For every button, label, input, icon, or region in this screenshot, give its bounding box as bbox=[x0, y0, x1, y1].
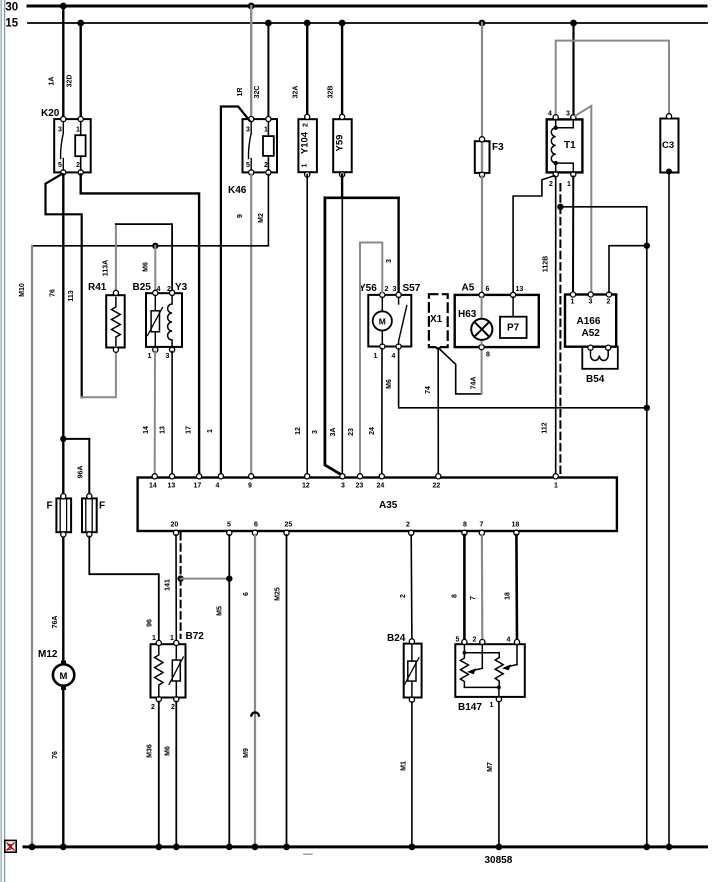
fuse F3 box bbox=[475, 141, 490, 173]
T1 internal node bottom bbox=[554, 161, 558, 165]
svg-text:B24: B24 bbox=[387, 633, 406, 644]
Y59 top pin circle bbox=[340, 114, 345, 119]
svg-text:5: 5 bbox=[227, 522, 231, 529]
wire 76 K20 pin5 down bbox=[62, 175, 64, 439]
wire F3 to A5 pin6 bbox=[481, 177, 483, 293]
svg-text:12: 12 bbox=[302, 483, 310, 490]
svg-text:18: 18 bbox=[512, 522, 520, 529]
svg-text:76: 76 bbox=[52, 751, 59, 759]
K20 coil leads bbox=[80, 122, 82, 171]
B24 top pin circle bbox=[409, 639, 414, 644]
wire 96A branch to right fuse bbox=[63, 439, 89, 494]
wire 112 T1 pin2 to A35 pin1 bbox=[555, 177, 557, 475]
svg-text:1: 1 bbox=[76, 127, 80, 134]
svg-text:5: 5 bbox=[246, 162, 250, 169]
wire 32D bus15 to K20 pin1 bbox=[79, 23, 81, 119]
wire 74A H63 pin8 drop bbox=[481, 350, 483, 394]
svg-text:2: 2 bbox=[76, 162, 80, 169]
ignition coil T1 box bbox=[547, 119, 583, 172]
shield dashed line 112 bbox=[559, 184, 561, 474]
ground bus junction dots bbox=[29, 844, 673, 851]
T1 internal lead to pin2 bbox=[555, 163, 557, 172]
svg-text:F: F bbox=[47, 501, 53, 512]
node bus15/F3 junction bbox=[479, 20, 486, 27]
Y56 pin 2 circle bbox=[380, 292, 385, 297]
F3 bottom pin circle bbox=[479, 172, 484, 177]
wire 96 right fuse to B72 pin1 bbox=[89, 537, 159, 641]
K46 coil leads bbox=[267, 122, 269, 171]
svg-text:13: 13 bbox=[168, 483, 176, 490]
T1 coil winding bbox=[551, 128, 555, 163]
svg-text:1: 1 bbox=[571, 299, 575, 306]
K20 pin 5 circle bbox=[61, 170, 66, 175]
wire 74A elbow X1 to H63 drop bbox=[440, 350, 482, 394]
B72 pin numbers 2 2 bbox=[151, 704, 175, 711]
svg-text:3: 3 bbox=[341, 483, 345, 490]
T1 internal link bottom to pin1 bbox=[556, 163, 574, 172]
ground symbol icon bottom left bbox=[5, 840, 16, 852]
A5 pin 6 circle bbox=[479, 292, 484, 297]
svg-text:1: 1 bbox=[264, 127, 268, 134]
svg-text:3: 3 bbox=[246, 127, 250, 134]
wire 23 A35 pin23 up over to Y56 pin2 bbox=[360, 243, 382, 475]
wire 76A junction to M12 bbox=[62, 439, 64, 662]
svg-text:M: M bbox=[379, 317, 386, 327]
svg-text:M10: M10 bbox=[19, 283, 26, 297]
svg-text:4: 4 bbox=[392, 353, 396, 360]
wire M6 junction to B25 pin4 bbox=[154, 246, 156, 291]
svg-text:17: 17 bbox=[186, 426, 193, 434]
node bus30/1A junction bbox=[60, 3, 67, 10]
svg-text:2: 2 bbox=[549, 181, 553, 188]
shield dashed line 141 bbox=[180, 533, 182, 638]
gauge P7 box bbox=[500, 317, 527, 338]
A166 pin 1 circle bbox=[570, 292, 575, 297]
svg-text:A5: A5 bbox=[462, 282, 475, 293]
svg-text:112: 112 bbox=[542, 422, 549, 433]
B147 left potentiometer zigzag bbox=[460, 653, 468, 688]
wire 8 A35 pin8 to B147 pin5 bbox=[463, 535, 466, 640]
svg-text:2: 2 bbox=[264, 162, 268, 169]
B147 pin 2 circle bbox=[480, 639, 485, 644]
svg-text:3A: 3A bbox=[330, 428, 337, 437]
wire T1 pin2 to P7 via A5 pin13 bbox=[513, 176, 554, 293]
T1 internal primary top link pin3 to coil bbox=[556, 120, 574, 128]
svg-text:1: 1 bbox=[567, 181, 571, 188]
wire M25 A35 pin25 to ground bbox=[286, 535, 288, 847]
B147 pin 4 circle bbox=[514, 639, 519, 644]
svg-text:17: 17 bbox=[194, 483, 202, 490]
ground bus 31 line bbox=[24, 845, 707, 848]
K46 relay coil resistor bbox=[263, 136, 274, 156]
svg-text:30858: 30858 bbox=[485, 855, 513, 866]
wire M6 S57 pin4 to ground riser bbox=[399, 349, 647, 408]
svg-text:8: 8 bbox=[463, 522, 467, 529]
svg-text:F: F bbox=[99, 501, 105, 512]
wire horizontal M2/M10 run crossing label M6 junction bbox=[152, 243, 158, 249]
wire 32C bus15 to K46 pin1 bbox=[267, 23, 269, 119]
wire C3 to ground bbox=[668, 172, 670, 847]
wire M1 B24 to ground bbox=[411, 702, 413, 847]
svg-text:2: 2 bbox=[406, 522, 410, 529]
wire 18 A35 pin18 to B147 pin4 bbox=[515, 535, 518, 640]
R41 zigzag element bbox=[112, 298, 121, 346]
T1 pin 2 circle bbox=[553, 172, 558, 177]
svg-text:1R: 1R bbox=[237, 88, 244, 97]
M12 motor symbol bbox=[53, 661, 74, 690]
fuse F right box bbox=[82, 498, 97, 532]
svg-text:T1: T1 bbox=[564, 140, 576, 151]
svg-text:30: 30 bbox=[5, 2, 18, 14]
node M6/ground riser junction bbox=[644, 405, 650, 411]
svg-text:13: 13 bbox=[516, 286, 524, 293]
svg-text:M25: M25 bbox=[275, 587, 282, 601]
svg-text:2: 2 bbox=[303, 123, 310, 127]
svg-text:M12: M12 bbox=[38, 649, 58, 660]
svg-text:M7: M7 bbox=[487, 762, 494, 772]
H63 lamp symbol bbox=[471, 319, 492, 340]
svg-text:3: 3 bbox=[566, 111, 570, 118]
svg-text:A35: A35 bbox=[379, 500, 398, 511]
svg-text:4: 4 bbox=[216, 483, 220, 490]
svg-text:1: 1 bbox=[374, 353, 378, 360]
stray gray dash mark bbox=[304, 853, 312, 855]
sensor B54 box bbox=[582, 347, 618, 369]
svg-text:6: 6 bbox=[254, 522, 258, 529]
svg-text:B25: B25 bbox=[133, 282, 152, 293]
wire 1A bus30 to K20 pin3 bbox=[62, 6, 64, 119]
svg-text:9: 9 bbox=[248, 483, 252, 490]
svg-text:32B: 32B bbox=[328, 86, 335, 99]
svg-text:M1: M1 bbox=[401, 761, 408, 771]
svg-text:32D: 32D bbox=[67, 75, 74, 88]
Y3 pin 3 circle bbox=[170, 347, 175, 352]
fuse F left pin circles bbox=[61, 494, 66, 537]
svg-text:Y59: Y59 bbox=[335, 135, 346, 152]
wire 1R bus30 to K46 pin3 bbox=[250, 6, 252, 119]
svg-text:1: 1 bbox=[152, 635, 156, 642]
R41 top pin circle bbox=[113, 290, 118, 295]
C3 top pin circle bbox=[666, 114, 671, 119]
K20 pin 3 circle bbox=[61, 117, 66, 122]
wire 113 lower elbow to R41 bbox=[82, 352, 116, 398]
svg-text:13: 13 bbox=[160, 426, 167, 434]
svg-text:M6: M6 bbox=[386, 379, 393, 389]
svg-text:14: 14 bbox=[149, 483, 157, 490]
page left border double line bbox=[1, 0, 4, 882]
F3 element wire through bbox=[481, 141, 483, 173]
svg-text:F3: F3 bbox=[492, 142, 504, 153]
svg-text:A52: A52 bbox=[582, 328, 601, 339]
svg-text:M6: M6 bbox=[165, 746, 172, 756]
A35 bottom pin circles bbox=[173, 530, 519, 535]
fuse F right pin circles bbox=[87, 494, 92, 537]
svg-text:B147: B147 bbox=[458, 702, 482, 713]
svg-text:96A: 96A bbox=[78, 466, 85, 479]
svg-text:1: 1 bbox=[554, 483, 558, 490]
svg-text:3: 3 bbox=[393, 286, 397, 293]
wire T1 pin4 up over to C3 top bbox=[556, 41, 669, 117]
B147 pin 1 circle bbox=[496, 697, 501, 702]
svg-text:H63: H63 bbox=[458, 309, 477, 320]
A5 pin 13 circle bbox=[510, 292, 515, 297]
svg-text:6: 6 bbox=[486, 286, 490, 293]
H63 lamp leads bbox=[481, 297, 483, 345]
svg-text:R41: R41 bbox=[88, 282, 107, 293]
svg-text:23: 23 bbox=[348, 428, 355, 436]
svg-text:C3: C3 bbox=[662, 140, 674, 151]
sensor B72 box bbox=[151, 644, 186, 697]
B72 zigzag element bbox=[155, 646, 163, 698]
wire T1 pin3 diagonal to A166 pin3 riser bbox=[575, 106, 591, 293]
X1 bottom pin circle bbox=[435, 347, 441, 350]
B147 internal node bottom bbox=[497, 686, 501, 690]
wire 6 A35 pin6 down bbox=[254, 535, 256, 847]
wire bridge R41 top to Y3 pin2 bbox=[116, 224, 172, 293]
wire 1 K46 pin3 branch to A35 pin4 bbox=[221, 107, 250, 475]
svg-text:76A: 76A bbox=[52, 616, 59, 629]
wire bus15 to F3 top bbox=[481, 23, 483, 139]
wire 32A bus15 to Y104 pin2 bbox=[306, 23, 308, 116]
svg-text:9: 9 bbox=[237, 214, 244, 218]
K20 pin 2 circle bbox=[78, 170, 83, 175]
svg-text:Y104: Y104 bbox=[300, 131, 311, 154]
wire A166 pin2 up over to ground riser bbox=[609, 246, 647, 293]
connector hook on wire 6 bbox=[251, 712, 259, 715]
svg-text:22: 22 bbox=[433, 483, 441, 490]
svg-text:3: 3 bbox=[386, 259, 393, 263]
A35 top pin numbers bbox=[149, 483, 558, 490]
svg-text:X1: X1 bbox=[430, 314, 443, 325]
B24 bottom pin circle bbox=[409, 697, 414, 702]
svg-text:12: 12 bbox=[295, 427, 302, 435]
svg-text:M9: M9 bbox=[243, 748, 250, 758]
wire 12 Y104 pin1 to A35 pin12 bbox=[306, 175, 308, 475]
B147 internal node top bbox=[463, 651, 467, 655]
wire 9 K46 pin5 to A35 pin9 bbox=[250, 175, 252, 475]
wire 113 K20 pin5 jog down to R41 bottom bbox=[46, 174, 82, 397]
node bus30/1R junction bbox=[248, 3, 255, 10]
node A166 pin2/ground riser junction bbox=[644, 243, 650, 249]
wire 3 bridge Y59 pin1 node bbox=[325, 175, 399, 198]
B72 pin 2 right circle bbox=[174, 697, 179, 702]
svg-text:76: 76 bbox=[50, 289, 57, 297]
Y56 motor symbol bbox=[373, 297, 392, 344]
S57 pin 3 circle bbox=[396, 292, 401, 297]
instrument cluster A5 box bbox=[455, 295, 539, 347]
K46 pin 5 circle bbox=[249, 170, 254, 175]
control unit A166 box bbox=[565, 295, 616, 347]
node bus15/32C junction bbox=[265, 20, 272, 27]
svg-text:32A: 32A bbox=[293, 86, 300, 99]
A35 bottom pin numbers bbox=[171, 522, 520, 529]
svg-text:1: 1 bbox=[302, 163, 309, 167]
svg-text:P7: P7 bbox=[507, 323, 520, 334]
svg-text:Y56: Y56 bbox=[359, 283, 377, 294]
svg-text:4: 4 bbox=[507, 637, 511, 644]
Y104 pin 1 circle bbox=[305, 172, 310, 177]
K46 pin 3 circle bbox=[249, 117, 254, 122]
A166 pin 2 circle bbox=[606, 292, 611, 297]
node bus15/32A junction bbox=[304, 20, 311, 27]
K46 switch contact bbox=[248, 122, 251, 171]
wire 3A Y59 to A35 pin3 bbox=[341, 198, 343, 475]
svg-text:96: 96 bbox=[147, 619, 154, 627]
svg-text:M36: M36 bbox=[147, 744, 154, 758]
svg-text:2: 2 bbox=[400, 594, 407, 598]
node shield 141 drain junction bbox=[177, 575, 183, 581]
svg-text:M2: M2 bbox=[258, 213, 265, 223]
B147 right potentiometer zigzag bbox=[495, 658, 503, 688]
svg-text:2: 2 bbox=[473, 637, 477, 644]
svg-text:1A: 1A bbox=[49, 77, 56, 86]
T1 pin 4 circle bbox=[553, 115, 558, 120]
svg-text:2: 2 bbox=[385, 286, 389, 293]
svg-text:4: 4 bbox=[548, 111, 552, 118]
B54 inductive element bbox=[591, 350, 609, 361]
connector X1 dashed box bbox=[429, 294, 448, 347]
B25/Y3 combined box bbox=[146, 293, 182, 347]
wire 3 thick branch down to A35 pin3 bbox=[325, 198, 343, 476]
svg-text:112B: 112B bbox=[543, 256, 550, 272]
Y104 pin 2 circle bbox=[305, 114, 310, 119]
control unit A35 box bbox=[138, 478, 617, 532]
node 96A branch junction bbox=[60, 436, 66, 442]
wire shield drain to ground riser bbox=[560, 207, 646, 847]
relay K46 box bbox=[243, 119, 278, 172]
svg-text:5: 5 bbox=[58, 162, 62, 169]
B147 internal top link bbox=[464, 645, 499, 658]
B54 pin circles bbox=[588, 345, 611, 350]
B72 pin 1 right circle bbox=[174, 640, 179, 645]
svg-text:A166: A166 bbox=[577, 316, 601, 327]
F3 top pin circle bbox=[479, 137, 484, 142]
svg-text:25: 25 bbox=[285, 522, 293, 529]
wire T1 pin1 to A166 pin1 bbox=[572, 177, 574, 293]
wire M10 down to ground bbox=[31, 246, 33, 847]
node bus15/32D junction bbox=[77, 20, 84, 27]
svg-text:141: 141 bbox=[165, 579, 172, 591]
bus 30 line bbox=[28, 5, 706, 8]
T1 pin 3 circle bbox=[571, 115, 576, 120]
svg-text:1: 1 bbox=[207, 429, 214, 433]
wire 17 K20 pin2 to A35 pin17 bbox=[81, 175, 199, 475]
bus 15 line bbox=[28, 22, 707, 24]
node M5 drain junction bbox=[226, 575, 232, 581]
A5 pin 8 circle bbox=[479, 345, 484, 350]
relay K20 box bbox=[54, 119, 90, 172]
svg-text:1: 1 bbox=[170, 635, 174, 642]
svg-text:2: 2 bbox=[151, 704, 155, 711]
svg-text:113: 113 bbox=[68, 290, 75, 301]
svg-text:20: 20 bbox=[171, 522, 179, 529]
A166 pin 3 circle bbox=[588, 292, 593, 297]
svg-text:113A: 113A bbox=[103, 260, 110, 276]
wire M2 K46 pin2 down then left bbox=[32, 175, 268, 246]
B147 internal bottom link bbox=[464, 687, 499, 697]
wire shield drain to M5 bbox=[181, 578, 230, 580]
svg-text:K46: K46 bbox=[228, 185, 247, 196]
wire 24 Y56 pin1 to A35 pin24 bbox=[381, 349, 383, 475]
wire M36 B72 to ground bbox=[158, 702, 160, 847]
valve Y104 box bbox=[298, 119, 317, 172]
Y59 bottom pin circle bbox=[340, 172, 345, 177]
svg-text:3: 3 bbox=[312, 430, 319, 434]
B25 pin 1 circle bbox=[153, 347, 158, 352]
svg-text:74: 74 bbox=[425, 386, 432, 394]
B147 right wiper arrow from pin4 bbox=[502, 645, 517, 671]
T1 pin 1 circle bbox=[571, 172, 576, 177]
B72 pin numbers 1 1 bbox=[152, 635, 174, 642]
B147 pin 5 circle bbox=[462, 639, 467, 644]
K46 pin 2 circle bbox=[266, 170, 271, 175]
K20 switch contact bbox=[61, 122, 64, 171]
svg-text:3: 3 bbox=[589, 299, 593, 306]
wire 7 A35 pin7 to B147 pin2 bbox=[481, 535, 484, 640]
S57 pin 4 circle bbox=[396, 344, 401, 349]
B147 left wiper arrow from pin2 bbox=[467, 645, 482, 675]
wire 32B bus15 to Y59 top bbox=[341, 23, 343, 116]
svg-text:24: 24 bbox=[377, 483, 385, 490]
svg-text:B54: B54 bbox=[586, 374, 605, 385]
svg-text:6: 6 bbox=[243, 592, 250, 596]
svg-text:1: 1 bbox=[148, 353, 152, 360]
T1 internal node top bbox=[554, 126, 558, 130]
wire M7 B147 pin1 to ground bbox=[498, 702, 500, 847]
svg-text:32C: 32C bbox=[254, 86, 261, 99]
svg-text:1: 1 bbox=[490, 702, 494, 709]
B25 thermistor element bbox=[148, 296, 163, 348]
sensor B24 box bbox=[404, 644, 422, 698]
B72 pin 2 left circle bbox=[156, 697, 161, 702]
svg-text:7: 7 bbox=[480, 522, 484, 529]
svg-text:M6: M6 bbox=[143, 262, 150, 272]
svg-text:3: 3 bbox=[166, 353, 170, 360]
node bus15/T1 junction bbox=[570, 20, 577, 27]
svg-text:M5: M5 bbox=[217, 606, 224, 616]
B25 pin 4 circle bbox=[153, 290, 158, 295]
B24 thermistor element bbox=[405, 644, 420, 697]
T1 pin4 internal lead bbox=[555, 120, 557, 128]
node shield drain junction bbox=[557, 204, 563, 210]
wire 2 A35 pin2 to B24 bbox=[410, 535, 413, 639]
wire bus15 to T1 pin3 bbox=[572, 23, 574, 117]
svg-text:Y3: Y3 bbox=[175, 282, 188, 293]
K20 relay coil resistor bbox=[75, 135, 85, 156]
Y56/S57 combined box bbox=[368, 295, 411, 347]
svg-text:2: 2 bbox=[171, 704, 175, 711]
wire 13 Y3 pin3 to A35 pin13 bbox=[171, 352, 173, 475]
svg-text:7: 7 bbox=[470, 596, 477, 600]
svg-text:2: 2 bbox=[167, 286, 171, 293]
wire 74 X1 to A35 pin22 bbox=[437, 350, 439, 475]
node bus15/32B junction bbox=[339, 20, 346, 27]
resistor R41 box bbox=[106, 295, 125, 347]
wire M6 B72 to ground bbox=[175, 702, 177, 847]
svg-text:14: 14 bbox=[143, 426, 150, 434]
B72 thermistor element bbox=[169, 646, 183, 698]
svg-text:4: 4 bbox=[157, 286, 161, 293]
svg-text:15: 15 bbox=[5, 18, 18, 30]
svg-text:8: 8 bbox=[486, 352, 490, 359]
svg-text:8: 8 bbox=[452, 594, 459, 598]
wire 3 bridge down to S57 pin3 bbox=[397, 198, 399, 293]
K20 pin 1 circle bbox=[78, 117, 83, 122]
svg-text:74A: 74A bbox=[471, 377, 478, 390]
K46 pin 1 circle bbox=[266, 117, 271, 122]
svg-text:3: 3 bbox=[58, 127, 62, 134]
svg-text:24: 24 bbox=[369, 427, 376, 435]
